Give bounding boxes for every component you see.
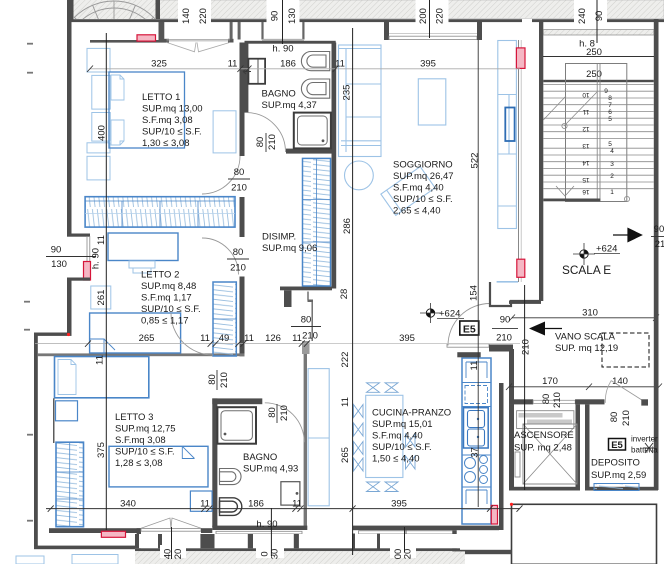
svg-text:170: 170 <box>542 376 558 387</box>
wardrobe disimp 49 <box>213 282 236 356</box>
svg-text:h. 90: h. 90 <box>256 519 277 530</box>
svg-text:SUP/10 ≤ S.F.: SUP/10 ≤ S.F. <box>141 304 201 315</box>
svg-text:80: 80 <box>255 137 266 148</box>
svg-text:80: 80 <box>233 247 244 258</box>
vano scala area <box>509 301 659 368</box>
stair numbers <box>582 88 614 196</box>
svg-text:E5: E5 <box>611 440 623 451</box>
wall right of E5 door <box>489 345 513 352</box>
svg-text:80: 80 <box>234 167 245 178</box>
small print marks left margin <box>24 43 33 522</box>
radiator cucina <box>491 505 497 524</box>
svg-text:220: 220 <box>198 8 209 24</box>
cucina top wall bar <box>457 352 480 357</box>
door dim labels <box>207 134 318 421</box>
svg-text:11: 11 <box>292 499 302 510</box>
svg-text:E5: E5 <box>463 324 476 336</box>
svg-text:9: 9 <box>604 88 608 95</box>
svg-text:batteria: batteria <box>631 446 658 455</box>
svg-text:S.F.mq 3,08: S.F.mq 3,08 <box>115 435 166 446</box>
svg-text:90: 90 <box>654 224 664 235</box>
svg-text:20: 20 <box>403 549 414 560</box>
dim texts rotated <box>91 8 606 559</box>
kitchen counter <box>462 358 491 524</box>
svg-text:BAGNO: BAGNO <box>262 89 296 100</box>
svg-text:LETTO 1: LETTO 1 <box>142 92 180 103</box>
svg-text:11: 11 <box>582 108 589 115</box>
stairwell inner rails <box>566 64 627 202</box>
letto3 bed <box>109 446 208 487</box>
svg-text:375: 375 <box>96 442 107 458</box>
svg-text:340: 340 <box>120 499 136 510</box>
svg-text:325: 325 <box>151 59 167 70</box>
svg-text:SUP. mq 12,19: SUP. mq 12,19 <box>555 343 618 354</box>
svg-text:80: 80 <box>207 374 218 385</box>
left wall below window <box>67 281 72 334</box>
letto1 window: jambs + glass + casement triangles <box>164 39 170 43</box>
ascensore <box>509 404 580 490</box>
svg-text:+624: +624 <box>439 308 460 319</box>
svg-text:395: 395 <box>391 499 407 510</box>
svg-text:SUP.mq 26,47: SUP.mq 26,47 <box>393 171 454 182</box>
svg-text:28: 28 <box>339 289 350 300</box>
svg-text:210: 210 <box>219 372 230 388</box>
svg-text:SCALA E: SCALA E <box>562 263 611 277</box>
svg-text:80: 80 <box>609 412 620 423</box>
svg-text:310: 310 <box>582 308 598 319</box>
soggiorno furniture <box>339 41 517 229</box>
svg-text:SUP. mq 2,48: SUP. mq 2,48 <box>514 443 572 454</box>
svg-text:286: 286 <box>342 218 353 234</box>
letto1 bed <box>109 72 185 148</box>
svg-text:SUP.mq 9,06: SUP.mq 9,06 <box>262 243 317 254</box>
svg-text:SUP.mq 12,75: SUP.mq 12,75 <box>115 424 176 435</box>
svg-text:1,50 ≤ 4,40: 1,50 ≤ 4,40 <box>372 454 419 465</box>
svg-text:inverter: inverter <box>631 435 658 444</box>
letto2/letto3 dividing wall <box>38 353 245 356</box>
svg-text:11: 11 <box>96 235 107 245</box>
svg-text:S.F.mq 1,17: S.F.mq 1,17 <box>141 293 192 304</box>
svg-text:DEPOSITO: DEPOSITO <box>591 458 640 469</box>
svg-text:210: 210 <box>231 183 247 194</box>
svg-text:CUCINA-PRANZO: CUCINA-PRANZO <box>372 408 451 419</box>
letto2 bed2 <box>90 313 181 353</box>
svg-text:130: 130 <box>51 259 67 270</box>
svg-text:265: 265 <box>139 333 155 344</box>
radiator letto2 <box>84 262 91 281</box>
svg-text:21: 21 <box>655 239 664 250</box>
stair direction lines <box>543 92 597 196</box>
svg-text:3: 3 <box>610 161 614 168</box>
svg-text:DISIMP.: DISIMP. <box>262 232 296 243</box>
left exterior wall upper <box>67 19 72 234</box>
svg-text:1,30 ≤ 3,08: 1,30 ≤ 3,08 <box>142 138 189 149</box>
wardrobe letto3 <box>56 442 84 527</box>
svg-text:11: 11 <box>228 59 238 70</box>
svg-text:80: 80 <box>541 394 552 405</box>
svg-text:S.F.mq 3,08: S.F.mq 3,08 <box>142 115 193 126</box>
bagno2 door <box>265 403 305 443</box>
svg-text:SUP/10 ≤ S.F.: SUP/10 ≤ S.F. <box>393 194 453 205</box>
svg-text:80: 80 <box>267 407 278 418</box>
landing/vano wall piece <box>509 301 541 304</box>
letto2 window glass <box>87 237 90 278</box>
tick marks on dim lines <box>48 66 523 512</box>
radiators soggiorno <box>516 48 525 69</box>
svg-text:140: 140 <box>181 8 192 24</box>
letto2 desk column <box>91 286 111 309</box>
wall segments at y 399.5 <box>509 399 533 404</box>
svg-text:30: 30 <box>270 549 281 560</box>
tall cabinet light blue <box>308 369 329 506</box>
svg-text:186: 186 <box>248 499 264 510</box>
svg-text:14: 14 <box>582 159 590 166</box>
svg-text:10: 10 <box>582 91 590 98</box>
bagno window recess <box>261 22 263 40</box>
svg-text:395: 395 <box>420 59 436 70</box>
+624 entry <box>426 309 434 317</box>
svg-text:400: 400 <box>97 125 108 141</box>
top band wall line <box>67 19 664 22</box>
svg-text:h. 90: h. 90 <box>91 248 102 269</box>
svg-text:240: 240 <box>577 8 588 24</box>
svg-text:130: 130 <box>287 8 298 24</box>
svg-text:210: 210 <box>621 410 632 426</box>
svg-text:210: 210 <box>302 331 318 342</box>
svg-text:90: 90 <box>270 11 281 22</box>
svg-text:90: 90 <box>594 11 605 22</box>
soggiorno top window <box>384 22 389 40</box>
wardrobe letto1 <box>85 197 235 227</box>
letto2 bed <box>108 233 178 261</box>
svg-text:186: 186 <box>280 59 296 70</box>
svg-text:SUP.mq 13,00: SUP.mq 13,00 <box>142 104 203 115</box>
svg-text:49: 49 <box>219 333 230 344</box>
radiator under letto3 <box>101 531 125 537</box>
E5 door <box>448 304 490 346</box>
svg-text:SOGGIORNO: SOGGIORNO <box>393 160 453 171</box>
bottom-right structure rectangle <box>512 504 657 564</box>
svg-text:522: 522 <box>470 153 481 169</box>
svg-text:2: 2 <box>610 173 614 180</box>
svg-text:SUP.mq 15,01: SUP.mq 15,01 <box>372 419 433 430</box>
svg-text:+624: +624 <box>596 244 617 255</box>
svg-text:6: 6 <box>608 109 612 116</box>
long vertical ref lines <box>105 33 107 530</box>
svg-text:261: 261 <box>96 290 107 306</box>
svg-text:SUP/10 ≤ S.F.: SUP/10 ≤ S.F. <box>142 127 202 138</box>
svg-text:210: 210 <box>230 263 246 274</box>
svg-text:140: 140 <box>612 376 628 387</box>
left arrow <box>529 322 545 336</box>
room label texts <box>115 89 454 475</box>
wardrobe disimp right column <box>303 158 331 286</box>
svg-text:210: 210 <box>521 339 532 355</box>
svg-text:LETTO 2: LETTO 2 <box>141 270 179 281</box>
spiral stair fan <box>58 1 170 113</box>
svg-text:90: 90 <box>51 245 62 256</box>
svg-text:SUP.mq 2,59: SUP.mq 2,59 <box>591 470 646 481</box>
white boxes behind top dim labels <box>178 0 607 29</box>
svg-text:SUP.mq 8,48: SUP.mq 8,48 <box>141 281 196 292</box>
vano scala bottom walls + doors <box>506 376 662 426</box>
svg-text:S.F.mq 4,40: S.F.mq 4,40 <box>372 431 423 442</box>
bagno1 fixtures <box>301 52 329 99</box>
svg-text:395: 395 <box>399 333 415 344</box>
bagno2 bottom wall <box>212 526 307 530</box>
dim texts horizontal <box>51 44 436 531</box>
bagno2/cucina wall <box>304 354 307 530</box>
svg-text:154: 154 <box>469 285 480 301</box>
letto1 desk <box>213 111 236 153</box>
svg-text:1: 1 <box>610 189 614 196</box>
svg-text:S.F.mq 4,40: S.F.mq 4,40 <box>393 183 444 194</box>
svg-text:1,28 ≤ 3,08: 1,28 ≤ 3,08 <box>115 458 162 469</box>
E5 entry <box>420 303 532 404</box>
svg-text:210: 210 <box>496 333 512 344</box>
lift car <box>523 424 577 484</box>
pier between windows <box>230 22 233 40</box>
svg-text:5: 5 <box>608 116 612 123</box>
svg-text:235: 235 <box>342 85 353 101</box>
stair bottom wall <box>543 199 600 202</box>
letto3 bottom window triangles <box>141 518 171 528</box>
svg-text:SUP.mq 4,37: SUP.mq 4,37 <box>262 100 317 111</box>
svg-text:250: 250 <box>586 69 602 80</box>
bagno2 walls <box>212 398 217 527</box>
svg-text:200: 200 <box>418 8 429 24</box>
svg-text:11: 11 <box>95 355 106 365</box>
svg-text:11: 11 <box>200 333 210 344</box>
letto1 closet column <box>87 48 110 180</box>
cucina right wall <box>499 383 504 530</box>
top exterior hatched band <box>72 0 664 19</box>
svg-text:ASCENSORE: ASCENSORE <box>514 430 574 441</box>
scala landing annotations <box>562 224 664 277</box>
svg-text:BAGNO: BAGNO <box>243 452 277 463</box>
svg-text:SUP.mq 4,93: SUP.mq 4,93 <box>243 464 298 475</box>
right stair block <box>539 19 659 301</box>
bottom strip lower unit <box>34 546 141 550</box>
svg-text:210: 210 <box>267 134 278 150</box>
svg-text:90: 90 <box>500 315 511 326</box>
svg-text:16: 16 <box>582 188 590 195</box>
spalla gray wall <box>302 341 310 354</box>
interior doors <box>202 156 240 194</box>
svg-text:h. 90: h. 90 <box>272 44 293 55</box>
svg-text:2,65 ≤ 4,40: 2,65 ≤ 4,40 <box>393 206 440 217</box>
svg-text:SUP/10 ≤ S.F.: SUP/10 ≤ S.F. <box>115 447 175 458</box>
svg-text:5: 5 <box>608 141 612 148</box>
letto3 desk <box>56 401 78 421</box>
stair treads <box>543 85 654 189</box>
svg-text:LETTO 3: LETTO 3 <box>115 412 153 423</box>
stair room top-left <box>58 0 170 113</box>
vano left wall <box>509 349 514 404</box>
svg-text:210: 210 <box>552 392 563 408</box>
svg-text:20: 20 <box>173 549 184 560</box>
bagno1 door <box>247 113 285 152</box>
svg-text:8: 8 <box>608 95 612 102</box>
svg-text:12: 12 <box>582 125 590 132</box>
level marker scala <box>580 250 588 258</box>
letto1 / letto2 right wall <box>240 43 245 157</box>
top wall of letto1 (thin, with radiator above) <box>90 40 166 43</box>
cucina table + chairs <box>366 395 403 477</box>
soggiorno bottom-right terrace <box>490 40 541 306</box>
svg-text:210: 210 <box>279 405 290 421</box>
wall jog at letto2 window top <box>67 234 90 237</box>
svg-text:80: 80 <box>301 315 312 326</box>
svg-text:40: 40 <box>163 549 174 560</box>
deposito <box>585 300 659 491</box>
svg-text:0,85 ≤ 1,17: 0,85 ≤ 1,17 <box>141 316 188 327</box>
soggiorno left wall <box>332 43 337 289</box>
svg-text:7: 7 <box>608 102 612 109</box>
lower left exterior wall <box>34 336 38 547</box>
svg-text:222: 222 <box>340 352 351 368</box>
svg-text:37: 37 <box>470 447 481 458</box>
deposito door <box>605 381 611 403</box>
window bottom jamb <box>67 278 90 281</box>
svg-text:VANO SCALA: VANO SCALA <box>555 332 616 343</box>
svg-text:11: 11 <box>244 333 254 344</box>
svg-text:4: 4 <box>610 148 614 155</box>
radiator letto1 top <box>137 35 156 41</box>
svg-text:11: 11 <box>292 333 302 344</box>
svg-text:13: 13 <box>582 142 590 149</box>
svg-text:15: 15 <box>582 176 590 183</box>
bagno1 walls <box>245 41 336 44</box>
jog to lower-left <box>34 333 72 336</box>
svg-text:265: 265 <box>340 447 351 463</box>
lift door bars <box>517 411 574 429</box>
bagno2 fixtures <box>217 407 256 444</box>
svg-text:126: 126 <box>265 333 281 344</box>
connector wall stair/window <box>159 22 165 41</box>
disimp bottom-right wall stubs <box>280 287 332 291</box>
svg-text:11: 11 <box>340 397 351 407</box>
letto3 bottom wall <box>49 528 141 533</box>
cucina bottom wall <box>353 526 500 531</box>
svg-text:SUP/10 ≤ S.F.: SUP/10 ≤ S.F. <box>372 442 432 453</box>
svg-text:220: 220 <box>435 8 446 24</box>
letto3 bed top <box>55 357 149 398</box>
svg-text:11: 11 <box>469 361 480 371</box>
